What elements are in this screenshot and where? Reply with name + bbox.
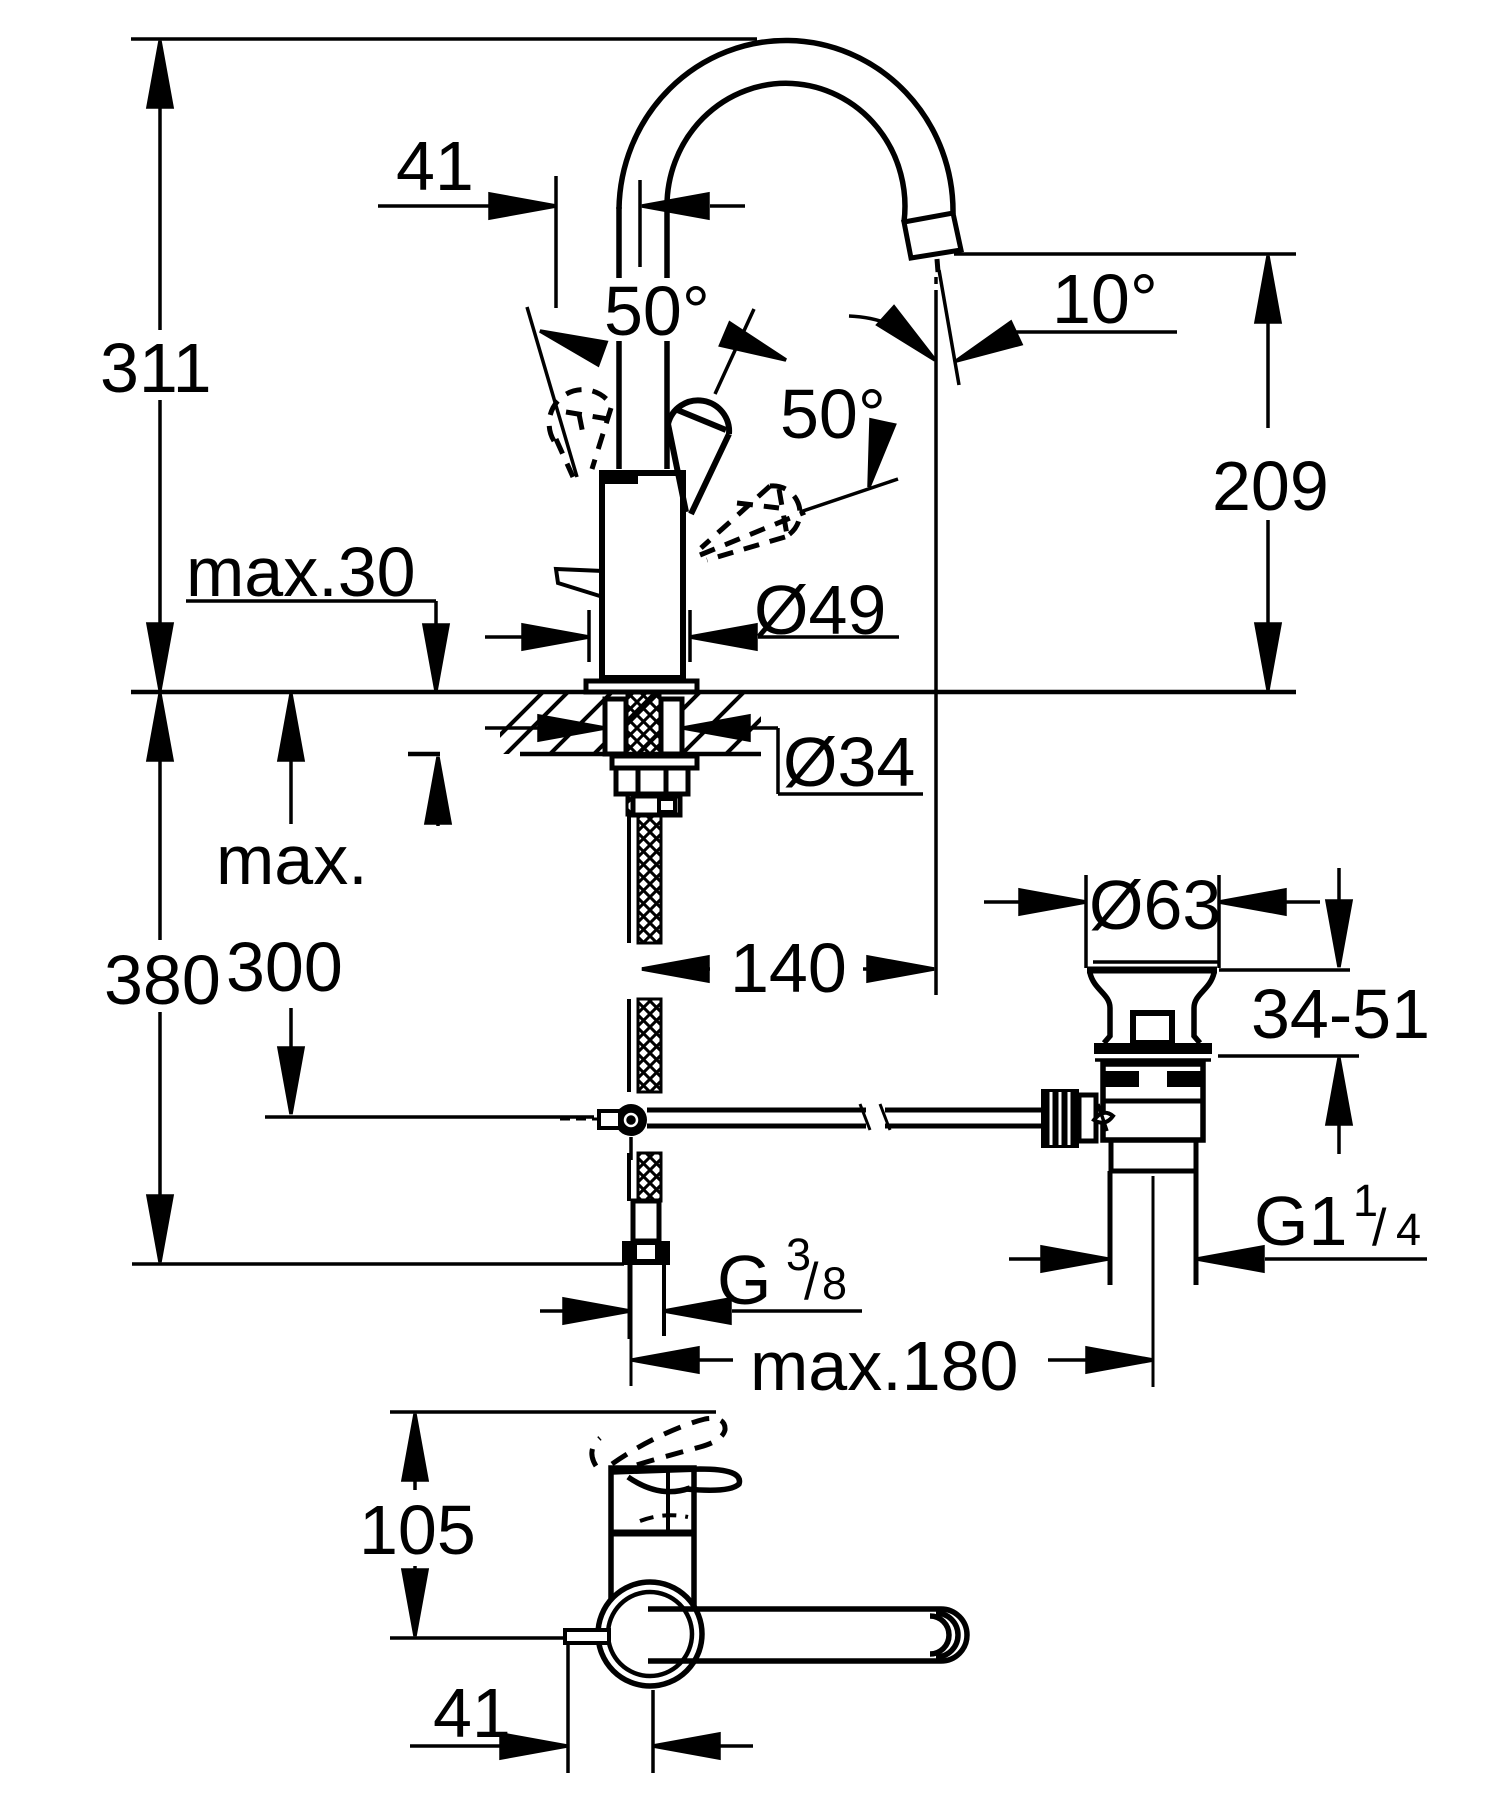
side body	[611, 1468, 694, 1606]
svg-text:Ø63: Ø63	[1089, 866, 1221, 944]
drain flange	[1093, 960, 1218, 964]
solid lever front	[612, 1469, 740, 1532]
supply hose upper	[627, 815, 631, 943]
svg-text:10°: 10°	[1052, 260, 1158, 338]
wire top reference line	[131, 37, 757, 41]
svg-text:209: 209	[1212, 447, 1329, 525]
svg-text:max.180: max.180	[750, 1327, 1018, 1405]
mounting nut	[616, 768, 688, 794]
svg-text:4: 4	[1396, 1204, 1421, 1255]
dim max300	[289, 695, 293, 824]
water stream projection line	[937, 259, 938, 272]
supply hose lower	[627, 1153, 631, 1201]
rod eyelet on drain	[1094, 1113, 1113, 1123]
spout tube left edge	[616, 207, 622, 278]
dim G38	[540, 1309, 564, 1313]
supply hose middle	[627, 999, 631, 1092]
spout side capsule	[648, 1609, 967, 1661]
lever solid upright	[668, 400, 729, 514]
washer	[612, 756, 697, 768]
dim 41 bottom	[566, 1644, 570, 1773]
base flange	[586, 681, 697, 692]
50 deg fan extension line left	[527, 307, 577, 477]
dim 140	[642, 967, 710, 971]
dim 209	[954, 252, 1296, 256]
svg-text:311: 311	[100, 329, 212, 407]
spout arc inner	[667, 83, 905, 222]
faucet body	[602, 473, 683, 678]
dim max30	[186, 599, 436, 603]
svg-text:Ø34: Ø34	[783, 723, 915, 801]
dim max180	[632, 1358, 733, 1362]
svg-text:140: 140	[730, 929, 847, 1007]
leader 10 deg	[1006, 330, 1177, 334]
dim O63	[984, 900, 1020, 904]
aerator tip	[904, 213, 961, 258]
sleeve right	[661, 699, 682, 754]
fan arrowhead left	[536, 320, 606, 365]
svg-text:/: /	[804, 1253, 819, 1311]
nut collar	[633, 796, 680, 815]
dim O34 callout	[485, 726, 539, 730]
drain body	[1103, 1064, 1203, 1140]
hose fitting	[633, 1201, 659, 1241]
swivel arc arrow	[849, 316, 927, 351]
dim 311 vertical line	[158, 44, 162, 330]
pop-up rod pivot	[615, 1104, 647, 1136]
G3/8 pipe	[628, 1265, 633, 1339]
spout arc outer	[619, 40, 953, 214]
svg-text:34-51: 34-51	[1251, 975, 1430, 1053]
counter hatching	[475, 680, 800, 760]
arrowhead below second 50 deg	[857, 420, 894, 490]
50 deg fan extension line right	[715, 309, 754, 394]
dim 105	[413, 1417, 417, 1490]
drain knob	[1133, 1013, 1172, 1043]
horizontal pop-up rod	[647, 1108, 866, 1113]
dashed raised lever	[592, 1418, 725, 1472]
dim O49	[485, 635, 523, 639]
dim 380	[158, 696, 162, 940]
spout tube right edge	[664, 211, 670, 278]
dim 41 top	[378, 204, 492, 208]
bottom view group	[390, 1412, 967, 1773]
lever dashed right rotated down	[700, 486, 805, 560]
lever dashed left	[549, 390, 612, 477]
svg-text:Ø49: Ø49	[754, 571, 886, 649]
svg-text:max.30: max.30	[186, 533, 416, 611]
svg-text:G1: G1	[1254, 1182, 1347, 1260]
svg-text:41: 41	[396, 127, 474, 205]
counter top line	[131, 690, 1296, 695]
svg-text:50°: 50°	[604, 272, 710, 350]
svg-text:380: 380	[104, 941, 221, 1019]
svg-text:max.: max.	[216, 821, 368, 899]
fan arrowhead right	[721, 323, 791, 371]
svg-text:8: 8	[822, 1258, 847, 1309]
svg-text:105: 105	[359, 1491, 476, 1569]
drain step	[1109, 1140, 1114, 1171]
svg-text:41: 41	[433, 1674, 511, 1752]
svg-text:300: 300	[226, 928, 343, 1006]
dim G114	[1009, 1257, 1042, 1261]
drain collar	[1094, 1043, 1212, 1054]
hose nut	[622, 1241, 670, 1265]
svg-text:/: /	[1372, 1199, 1387, 1257]
svg-text:G: G	[717, 1241, 771, 1319]
rod knurled knob	[1041, 1089, 1079, 1148]
ref lines 105	[390, 1410, 716, 1414]
main elevation group	[131, 39, 1427, 1387]
escutcheon circles	[598, 1582, 702, 1686]
back pull rod hook	[556, 569, 603, 597]
sleeve left	[605, 699, 626, 754]
mounting shank braid	[627, 692, 660, 815]
extension line of swivel angle	[800, 479, 898, 512]
counter bottom line	[408, 752, 440, 757]
dim 34-51	[1219, 968, 1350, 972]
svg-text:50°: 50°	[780, 375, 886, 453]
drain tailpipe	[1108, 1171, 1113, 1285]
tilted stream 10 deg	[939, 270, 959, 385]
pull rod side	[565, 1630, 609, 1643]
rod connector	[1079, 1095, 1096, 1141]
